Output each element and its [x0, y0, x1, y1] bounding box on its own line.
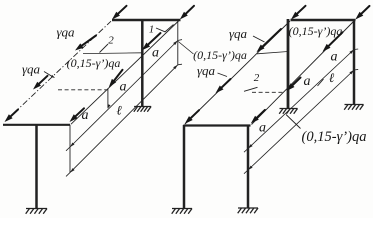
svg-text:a: a	[82, 108, 89, 123]
svg-text:a: a	[120, 80, 127, 95]
svg-text:a: a	[331, 50, 338, 65]
svg-text:2: 2	[108, 35, 114, 47]
svg-text:ℓ: ℓ	[116, 103, 122, 118]
svg-text:1: 1	[149, 24, 155, 36]
svg-text:(0,15-γ’)qa: (0,15-γ’)qa	[193, 48, 247, 62]
svg-text:(0,15-γ’)qa: (0,15-γ’)qa	[67, 56, 121, 70]
svg-text:γqa: γqa	[56, 25, 75, 40]
svg-text:γqa: γqa	[22, 62, 41, 77]
svg-text:(0,15-γ’)qa: (0,15-γ’)qa	[289, 24, 343, 38]
svg-text:a: a	[304, 74, 311, 89]
svg-text:γqa: γqa	[197, 63, 216, 78]
svg-text:γqa: γqa	[229, 26, 248, 41]
svg-text:(0,15-γ’)qa: (0,15-γ’)qa	[302, 129, 367, 145]
svg-text:a: a	[152, 46, 159, 61]
svg-text:ℓ: ℓ	[329, 70, 335, 85]
svg-text:2: 2	[254, 72, 260, 84]
svg-text:a: a	[259, 121, 266, 136]
